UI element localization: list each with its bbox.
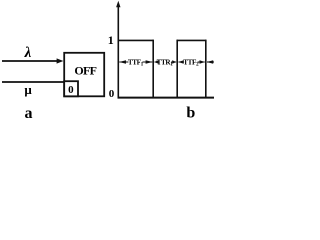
- svg-text:0: 0: [68, 84, 74, 96]
- svg-text:b: b: [186, 105, 195, 121]
- svg-text:μ: μ: [24, 82, 32, 97]
- svg-text:0: 0: [109, 88, 115, 100]
- svg-text:a: a: [25, 105, 33, 120]
- svg-text:OFF: OFF: [74, 64, 96, 78]
- svg-text:λ: λ: [24, 45, 32, 61]
- svg-text:1: 1: [108, 33, 114, 47]
